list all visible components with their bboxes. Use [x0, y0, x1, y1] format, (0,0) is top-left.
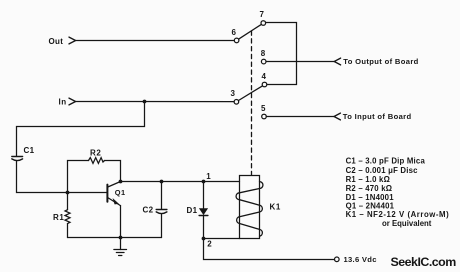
svg-text:R1 – 1.0 kΩ: R1 – 1.0 kΩ — [346, 175, 390, 184]
relay coil K1 — [236, 176, 263, 239]
junction collector — [119, 180, 123, 184]
wire top (R2 branch) — [68, 161, 89, 210]
terminal In — [69, 98, 76, 105]
junction base — [66, 191, 70, 195]
relay contact 6 — [234, 38, 239, 43]
svg-text:R1: R1 — [53, 213, 64, 222]
svg-text:To Input of Board: To Input of Board — [343, 112, 412, 121]
transistor Q1 — [107, 182, 120, 206]
mechanical linkage dashed line — [251, 31, 253, 175]
svg-text:2: 2 — [207, 240, 212, 249]
capacitor C2 — [156, 182, 167, 238]
wire contact 7 to vertical — [266, 23, 297, 85]
wire In to contact 3 — [76, 101, 235, 103]
wire R1 to bottom — [67, 224, 69, 238]
relay contact 5 — [262, 114, 267, 119]
wire emitter down — [120, 206, 122, 238]
wire contact 8 to output arrow — [266, 61, 334, 63]
node 2 — [202, 237, 206, 241]
power terminal 13.6 Vdc — [204, 239, 335, 260]
relay contact 3 — [234, 100, 239, 105]
svg-text:13.6 Vdc: 13.6 Vdc — [344, 255, 377, 264]
wire C1 to base line — [17, 161, 107, 193]
resistor R2 — [89, 158, 105, 164]
svg-text:5: 5 — [261, 104, 266, 113]
resistor R1 — [65, 210, 70, 224]
svg-text:C1 – 3.0 pF Dip Mica: C1 – 3.0 pF Dip Mica — [346, 157, 426, 166]
wire contact 5 to input arrow — [266, 116, 334, 118]
switch arm 6-7 — [239, 24, 262, 39]
wire bottom rail — [68, 237, 162, 239]
capacitor C1 — [12, 157, 23, 161]
switch arm 3-4 — [239, 86, 263, 101]
svg-text:1: 1 — [206, 172, 211, 181]
svg-text:In: In — [59, 97, 67, 106]
svg-text:or Equivalent: or Equivalent — [382, 219, 432, 228]
svg-text:D1: D1 — [187, 206, 198, 215]
wire collector rail to relay — [121, 181, 240, 183]
relay contact 8 — [261, 59, 266, 64]
terminal Out — [69, 37, 76, 44]
svg-text:SeekIC.com: SeekIC.com — [391, 255, 457, 269]
junction In/C1 — [143, 100, 147, 104]
svg-text:Q1: Q1 — [115, 188, 126, 197]
relay contact 4 — [262, 82, 267, 87]
svg-text:K1 – NF2-12 V (Arrow-M): K1 – NF2-12 V (Arrow-M) — [346, 210, 450, 219]
wire node2 to relay bottom — [204, 238, 240, 240]
svg-text:C2: C2 — [143, 206, 154, 215]
junction emitter/ground — [119, 236, 123, 240]
svg-text:R2 – 470 kΩ: R2 – 470 kΩ — [346, 184, 393, 193]
diode D1 — [199, 182, 208, 239]
node 1 — [202, 180, 206, 184]
relay contact 7 — [261, 21, 266, 26]
junction C2 — [160, 180, 164, 184]
svg-text:C1: C1 — [24, 146, 35, 155]
svg-text:4: 4 — [262, 72, 267, 81]
svg-text:R2: R2 — [90, 149, 101, 158]
wire R2 to collector node — [105, 161, 121, 182]
svg-text:3: 3 — [231, 89, 236, 98]
svg-text:8: 8 — [261, 49, 266, 58]
svg-text:Out: Out — [49, 37, 64, 46]
svg-text:6: 6 — [232, 28, 237, 37]
svg-text:C2 – 0.001 μF Disc: C2 – 0.001 μF Disc — [346, 166, 419, 175]
ground — [114, 238, 127, 256]
wire Out to contact 6 — [76, 40, 235, 42]
parts list — [346, 157, 450, 228]
svg-text:K1: K1 — [270, 202, 281, 211]
svg-text:7: 7 — [260, 10, 265, 19]
svg-text:To Output of Board: To Output of Board — [343, 57, 418, 66]
wire In junction down-left to C1 — [17, 102, 145, 156]
